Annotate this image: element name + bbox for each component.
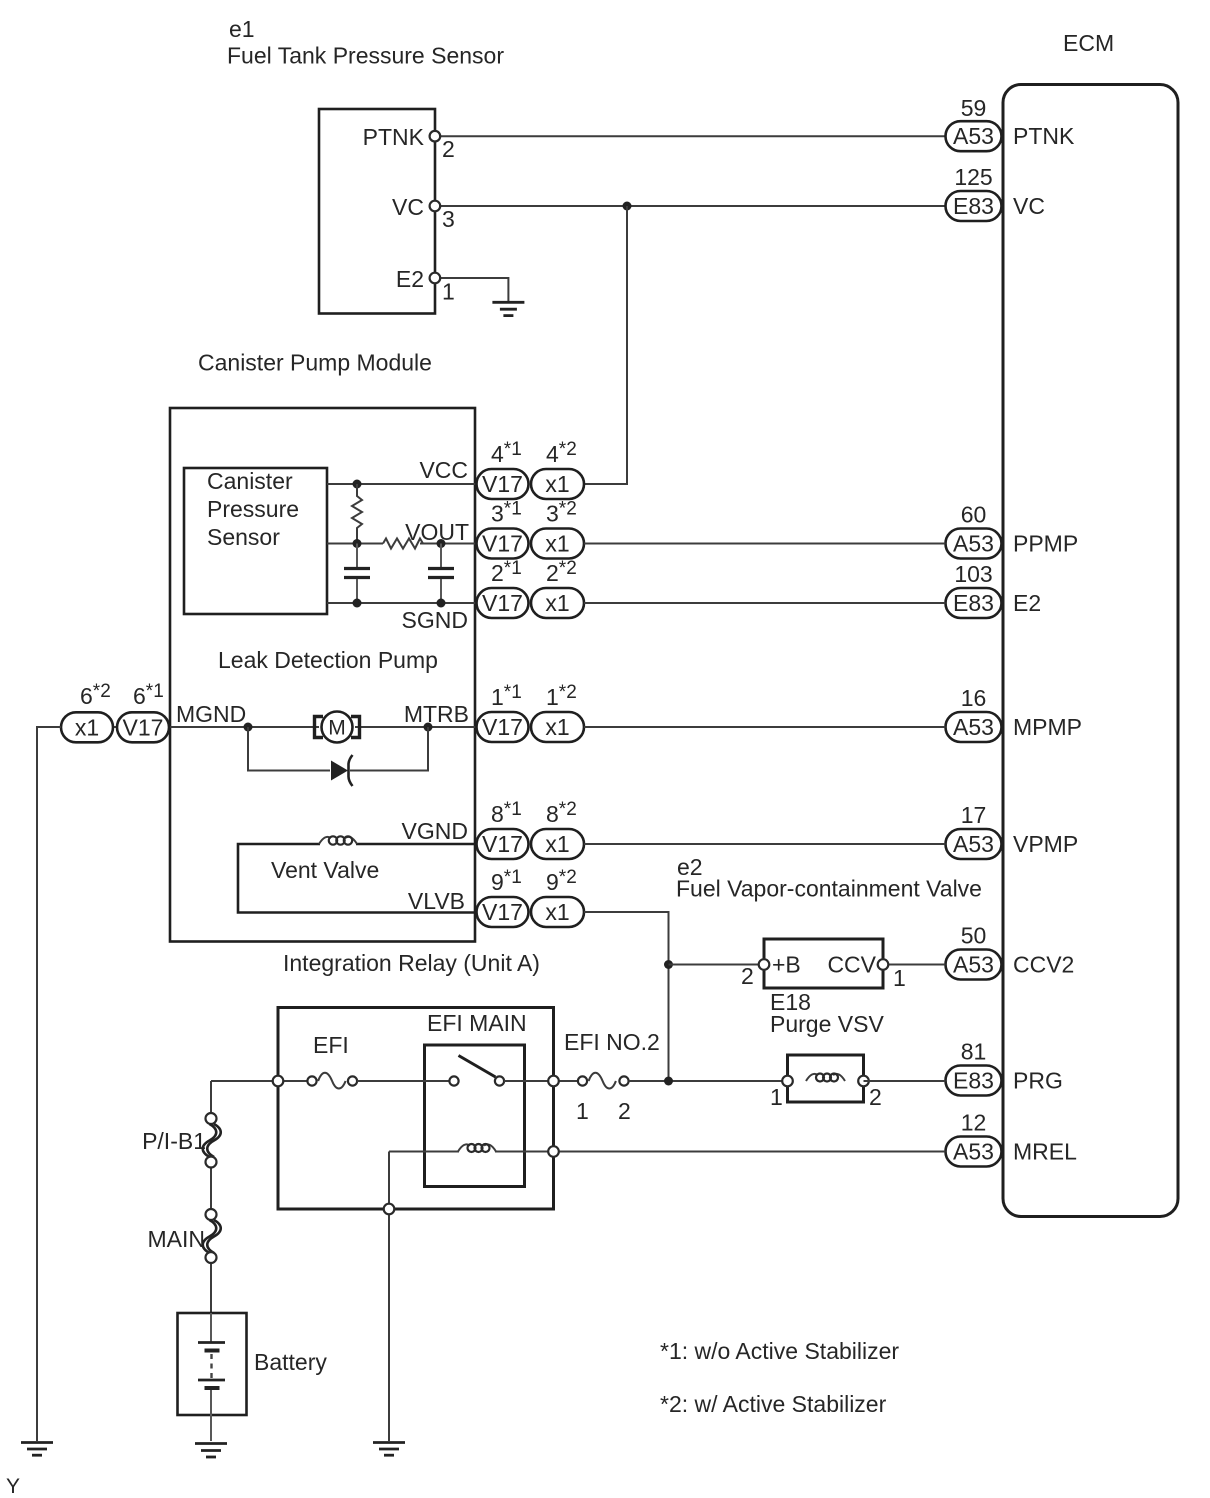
svg-text:1: 1 <box>576 1098 589 1124</box>
svg-text:A53: A53 <box>953 123 994 149</box>
pin relay right edge EFI <box>548 1076 559 1087</box>
node SGND junction right <box>437 599 446 608</box>
svg-text:MTRB: MTRB <box>404 701 469 727</box>
wire E2 e1 to ground <box>440 278 508 301</box>
svg-text:V17: V17 <box>482 471 523 497</box>
svg-text:59: 59 <box>961 95 987 121</box>
vent valve box <box>238 844 476 913</box>
svg-text:e1: e1 <box>229 16 255 42</box>
wire fuse to switch <box>357 1080 449 1082</box>
svg-text:x1: x1 <box>545 590 569 616</box>
pin 1 CCV <box>878 959 889 970</box>
inductor L3 EFI MAIN relay coil <box>458 1142 496 1154</box>
svg-text:CCV2: CCV2 <box>1013 952 1074 978</box>
svg-text:Y: Y <box>6 1475 20 1498</box>
svg-text:Integration Relay (Unit A): Integration Relay (Unit A) <box>283 950 540 976</box>
node VCC junction <box>353 480 362 489</box>
svg-text:A53: A53 <box>953 952 994 978</box>
svg-text:VLVB: VLVB <box>408 888 465 914</box>
pin relay right edge coil <box>548 1146 559 1157</box>
svg-text:A53: A53 <box>953 831 994 857</box>
wire switch to EFI NO.2 fuse <box>504 1080 578 1082</box>
svg-text:17: 17 <box>961 802 987 828</box>
battery BT1 <box>178 1313 247 1441</box>
svg-text:V17: V17 <box>123 714 164 740</box>
fuse EFI <box>307 1073 357 1089</box>
wire CCV to CCV2 <box>883 964 946 966</box>
svg-text:Fuel Vapor-containment Valve: Fuel Vapor-containment Valve <box>676 876 982 902</box>
purge VSV E18 box <box>788 1055 864 1102</box>
wire coil to ground <box>388 1152 390 1442</box>
ground Y <box>21 1443 53 1456</box>
svg-text:E83: E83 <box>953 590 994 616</box>
svg-text:M: M <box>328 717 346 740</box>
node CCV junction <box>664 960 673 969</box>
ground relay coil <box>373 1443 405 1456</box>
svg-text:EFI MAIN: EFI MAIN <box>427 1010 527 1036</box>
svg-text:VGND: VGND <box>402 818 468 844</box>
pin 1 purge VSV <box>782 1076 793 1087</box>
svg-text:PRG: PRG <box>1013 1068 1063 1094</box>
svg-text:V17: V17 <box>482 714 523 740</box>
svg-text:+B: +B <box>772 952 801 978</box>
diode D1 zener <box>331 755 353 786</box>
svg-text:E83: E83 <box>953 1068 994 1094</box>
wire PTNK e1 to ECM <box>440 135 946 137</box>
relay box integration relay <box>278 1008 554 1210</box>
node EFI NO.2 junction <box>664 1077 673 1086</box>
svg-text:PTNK: PTNK <box>363 124 425 150</box>
wire VOUT to PPMP <box>584 543 946 545</box>
wire junction to CCV +B <box>669 964 765 966</box>
pin 2 purge VSV <box>858 1076 869 1087</box>
svg-text:81: 81 <box>961 1039 987 1065</box>
wire VC to VCC x1 <box>584 206 627 484</box>
canister pump module box <box>170 408 475 942</box>
svg-text:x1: x1 <box>545 831 569 857</box>
svg-text:x1: x1 <box>545 714 569 740</box>
capacitor C1 <box>344 544 370 604</box>
resistor R2 horizontal <box>383 539 423 549</box>
wire purge VSV to PRG <box>864 1080 946 1082</box>
svg-text:VOUT: VOUT <box>405 519 469 545</box>
svg-text:1: 1 <box>442 279 455 305</box>
ground e1 E2 <box>492 302 524 315</box>
svg-text:2: 2 <box>618 1098 631 1124</box>
svg-text:1: 1 <box>893 965 906 991</box>
svg-text:3: 3 <box>442 206 455 232</box>
svg-text:VPMP: VPMP <box>1013 831 1078 857</box>
svg-text:Canister Pump Module: Canister Pump Module <box>198 350 432 376</box>
node VOUT junction right <box>437 539 446 548</box>
svg-text:x1: x1 <box>75 714 99 740</box>
capacitor C2 <box>428 544 454 604</box>
node SGND junction left <box>353 599 362 608</box>
svg-text:V17: V17 <box>482 899 523 925</box>
svg-text:V17: V17 <box>482 531 523 557</box>
EFI MAIN relay inner box <box>425 1045 525 1187</box>
fusible link MAIN <box>148 1209 221 1263</box>
svg-text:VCC: VCC <box>419 457 468 483</box>
fuse EFI NO.2 <box>576 1073 631 1124</box>
svg-text:*1: w/o Active Stabilizer: *1: w/o Active Stabilizer <box>660 1338 899 1364</box>
svg-text:A53: A53 <box>953 531 994 557</box>
svg-text:E2: E2 <box>396 266 424 292</box>
svg-text:x1: x1 <box>545 471 569 497</box>
svg-text:Canister: Canister <box>207 468 293 494</box>
svg-text:PTNK: PTNK <box>1013 123 1075 149</box>
wire battery vertical <box>210 1081 212 1114</box>
svg-text:A53: A53 <box>953 714 994 740</box>
node MTRB junction <box>424 723 433 732</box>
wire MTRB to MPMP <box>584 726 946 728</box>
svg-text:Purge VSV: Purge VSV <box>770 1011 884 1037</box>
svg-text:103: 103 <box>954 561 992 587</box>
svg-text:x1: x1 <box>545 531 569 557</box>
svg-text:EFI NO.2: EFI NO.2 <box>564 1029 660 1055</box>
node MGND junction <box>244 723 253 732</box>
pin 2 PTNK <box>430 131 441 142</box>
svg-text:2: 2 <box>869 1084 882 1110</box>
wire MGND MTRB <box>61 726 319 728</box>
svg-text:V17: V17 <box>482 590 523 616</box>
svg-text:2: 2 <box>442 136 455 162</box>
svg-text:1: 1 <box>770 1084 783 1110</box>
wire battery feed to EFI fuse <box>211 1080 308 1082</box>
fuel vapor-containment valve e2 box <box>764 939 883 988</box>
svg-text:V17: V17 <box>482 831 523 857</box>
pin 3 VC <box>430 201 441 212</box>
wire VOUT <box>327 543 383 545</box>
svg-text:E2: E2 <box>1013 590 1041 616</box>
wire relay coil to MREL <box>389 1151 463 1153</box>
pin 1 E2 <box>430 273 441 284</box>
svg-text:16: 16 <box>961 685 987 711</box>
svg-text:Sensor: Sensor <box>207 524 280 550</box>
svg-text:Pressure: Pressure <box>207 496 299 522</box>
svg-text:SGND: SGND <box>402 607 468 633</box>
svg-text:MREL: MREL <box>1013 1139 1077 1165</box>
svg-text:125: 125 <box>954 164 992 190</box>
node VOUT junction left <box>353 539 362 548</box>
svg-text:VC: VC <box>392 194 424 220</box>
wire MGND to ground Y <box>37 727 61 1441</box>
svg-text:EFI: EFI <box>313 1032 349 1058</box>
svg-text:PPMP: PPMP <box>1013 531 1078 557</box>
canister pressure sensor <box>184 468 327 614</box>
svg-text:Vent Valve: Vent Valve <box>271 857 379 883</box>
svg-text:*2: w/ Active Stabilizer: *2: w/ Active Stabilizer <box>660 1391 887 1417</box>
ground battery <box>195 1444 227 1458</box>
fusible link P/I-B1 <box>142 1113 221 1168</box>
relay switch contacts <box>449 1056 504 1086</box>
svg-text:50: 50 <box>961 923 987 949</box>
resistor R1 vertical <box>352 484 362 544</box>
svg-text:Leak Detection Pump: Leak Detection Pump <box>218 647 438 673</box>
inductor L1 vent valve <box>319 836 357 851</box>
pin relay bottom edge <box>384 1204 395 1215</box>
wire VCC <box>327 483 476 485</box>
node VC junction <box>623 202 632 211</box>
svg-text:E83: E83 <box>953 193 994 219</box>
wire VC e1 to ECM <box>440 205 946 207</box>
pin relay left edge <box>273 1076 284 1087</box>
fuel tank pressure sensor e1 <box>319 109 435 314</box>
svg-text:MPMP: MPMP <box>1013 714 1082 740</box>
svg-text:CCV: CCV <box>827 952 876 978</box>
wire SGND <box>327 602 476 604</box>
wire diode bypass <box>248 727 330 771</box>
wire VLVB to CCV junction <box>584 912 669 1081</box>
wire SGND to E2 <box>584 602 946 604</box>
svg-text:Fuel Tank Pressure Sensor: Fuel Tank Pressure Sensor <box>227 43 504 69</box>
svg-text:VC: VC <box>1013 193 1045 219</box>
pin 2 +B <box>759 959 770 970</box>
wire EFI NO.2 to purge VSV <box>629 1080 788 1082</box>
svg-text:2: 2 <box>741 963 754 989</box>
svg-text:x1: x1 <box>545 899 569 925</box>
svg-text:A53: A53 <box>953 1139 994 1165</box>
wire VGND to VPMP <box>584 843 946 845</box>
svg-text:MGND: MGND <box>176 701 246 727</box>
motor M1 leak detection pump <box>315 712 360 743</box>
svg-text:12: 12 <box>961 1110 987 1136</box>
svg-text:P/I-B1: P/I-B1 <box>142 1128 206 1154</box>
svg-text:ECM: ECM <box>1063 30 1114 56</box>
svg-text:60: 60 <box>961 502 987 528</box>
svg-text:Battery: Battery <box>254 1349 327 1375</box>
inductor L2 purge VSV <box>806 1072 845 1084</box>
svg-text:MAIN: MAIN <box>148 1226 206 1252</box>
